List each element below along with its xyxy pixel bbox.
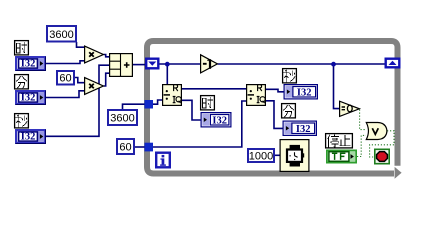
wire tunnel2 to QR2: [153, 101, 247, 147]
quotient remainder node 1: [163, 85, 182, 106]
node junction 2: [331, 62, 336, 67]
constant 1000: [248, 149, 274, 163]
wire TF to or gate dotted: [357, 135, 366, 156]
indicator minute I32: [283, 121, 316, 135]
constant 60 left: [57, 71, 74, 85]
label minute: [15, 75, 29, 89]
control hour I32: [16, 57, 46, 71]
wire second I32 to compound add: [46, 65, 110, 136]
svg-text:60: 60: [59, 73, 71, 85]
svg-text:3600: 3600: [110, 113, 134, 125]
control second I32: [16, 130, 46, 144]
label minute inner: [282, 104, 296, 118]
wire compound add to shift register left: [133, 64, 146, 66]
constant 3600 lower: [108, 110, 137, 125]
wire main top from shift register to decrement: [159, 63, 201, 65]
or gate: [366, 123, 387, 140]
label stop: [326, 134, 353, 148]
wire QR2 quotient to minute indicator: [266, 101, 284, 129]
label hour: [15, 41, 29, 55]
wire or gate to loop condition dotted: [370, 131, 394, 157]
wire junction2 drop to equal zero: [334, 64, 340, 109]
multiply node 1: [85, 46, 104, 63]
svg-text:I32: I32: [212, 115, 227, 126]
indicator hour I32: [201, 113, 231, 127]
shift register left terminal: [146, 59, 158, 69]
constant 3600 top: [47, 26, 76, 42]
label hour inner: [201, 96, 215, 110]
tunnel for 60: [145, 143, 154, 152]
quotient remainder node 2: [247, 85, 266, 106]
wire equal zero to or gate dotted: [360, 110, 366, 130]
wire QR2 remainder to second indicator: [266, 89, 285, 92]
label second inner: [283, 69, 297, 83]
while loop border: [147, 41, 402, 179]
wire 3600 to multiply1: [77, 42, 85, 47]
wait timer node: [280, 140, 309, 172]
iteration terminal i: [156, 153, 170, 168]
wire multiply2 to compound add: [104, 73, 110, 86]
label second: [15, 114, 29, 128]
wire QR1 quotient to hour indicator: [182, 100, 202, 120]
loop condition stop terminal: [375, 149, 389, 163]
wire multiply1 to compound add: [104, 55, 110, 57]
constant 60 lower: [117, 139, 134, 154]
wire hour I32 to multiply1: [46, 61, 85, 64]
tunnel for 3600: [145, 100, 154, 109]
wire 1000 to wait timer: [275, 154, 280, 156]
node junction 1: [165, 62, 170, 67]
multiply node 2: [85, 78, 104, 95]
wire main top from decrement to shift register right: [218, 63, 386, 65]
indicator second I32: [284, 85, 317, 99]
wire minute I32 to multiply2: [46, 91, 85, 98]
control minute I32: [16, 91, 46, 105]
wire 60 inner to tunnel2: [134, 146, 145, 148]
svg-text:1000: 1000: [249, 151, 273, 163]
svg-text:3600: 3600: [49, 29, 73, 41]
wire 3600 inner to tunnel1: [123, 104, 146, 109]
equal zero node: [340, 101, 360, 116]
compound add node: [110, 54, 133, 77]
shift register right terminal: [386, 59, 400, 68]
control stop TF: [327, 150, 356, 162]
wire QR1 remainder to QR2: [182, 88, 247, 90]
wire junction drop to QR1: [166, 64, 168, 85]
wire 60 to multiply2: [75, 78, 85, 83]
svg-text:60: 60: [119, 142, 131, 154]
wire tunnel1 to QR1: [153, 100, 163, 104]
decrement node -1: [201, 55, 218, 73]
